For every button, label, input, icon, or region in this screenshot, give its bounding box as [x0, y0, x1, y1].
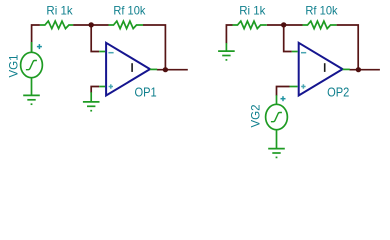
svg-text:Ri 1k: Ri 1k	[239, 4, 266, 18]
plus sign VG2	[281, 96, 286, 101]
node junction Ri/Rf	[89, 22, 94, 27]
voltage source VG1	[21, 42, 43, 95]
wire Rf to feedback corner (right)	[337, 25, 359, 70]
node junction Ri/Rf (right)	[281, 22, 286, 27]
svg-text:VG1: VG1	[6, 55, 20, 78]
resistor Ri (right)	[233, 21, 267, 29]
node junction output	[163, 67, 168, 72]
ideal bar OP2	[324, 63, 326, 72]
pin stub non-inverting	[99, 86, 105, 88]
wire top-left VG1 to Ri	[32, 25, 40, 53]
resistor Ri (left)	[40, 21, 73, 29]
pin stub non-inverting (right)	[290, 86, 298, 88]
minus sign OP1	[108, 52, 113, 54]
svg-text:OP2: OP2	[327, 85, 349, 99]
wire inverting input drop (right)	[284, 25, 292, 52]
svg-text:Rf 10k: Rf 10k	[305, 4, 338, 18]
pin stub output	[150, 68, 157, 70]
svg-text:Ri 1k: Ri 1k	[46, 4, 73, 18]
wire Ri to Rf (right)	[267, 24, 303, 26]
wire top-left corner to ground (right)	[226, 25, 232, 43]
wire Rf to feedback corner	[143, 25, 165, 70]
wire Ri to Rf (through node)	[73, 24, 108, 26]
wire non-inverting input to VG2	[277, 87, 290, 96]
minus sign OP2	[301, 52, 306, 54]
op-amp OP2	[299, 43, 343, 96]
resistor Rf (left)	[109, 21, 144, 29]
wire output (right)	[349, 69, 380, 71]
ideal bar OP1	[131, 63, 133, 72]
pin stub inverting	[99, 51, 105, 53]
node junction output (right)	[356, 67, 361, 72]
svg-text:Rf 10k: Rf 10k	[113, 4, 146, 18]
plus sign OP1	[109, 84, 113, 88]
plus sign OP2	[301, 84, 305, 88]
svg-text:VG2: VG2	[248, 105, 262, 128]
ground VG2	[268, 149, 285, 158]
ground OP1 non-inverting	[83, 92, 100, 111]
resistor Rf (right)	[303, 21, 337, 29]
pin stub output (right)	[343, 68, 350, 70]
wire inverting input drop	[91, 25, 99, 52]
voltage source VG2	[266, 95, 288, 148]
wire non-inverting input to ground	[91, 87, 99, 93]
plus sign VG1	[37, 44, 42, 49]
wire output	[157, 69, 188, 71]
ground VG1	[23, 95, 40, 104]
op-amp OP1	[106, 43, 150, 96]
pin stub inverting (right)	[292, 51, 298, 53]
ground top-left (right circuit)	[218, 43, 235, 60]
svg-text:OP1: OP1	[135, 85, 157, 99]
